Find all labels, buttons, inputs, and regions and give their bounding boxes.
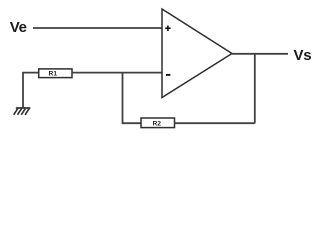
wire output branch vertical xyxy=(254,54,256,123)
wire R2 to output branch xyxy=(175,122,255,124)
svg-text:R1: R1 xyxy=(49,71,58,78)
pin + (non-inverting) xyxy=(165,26,170,32)
resistor R2 xyxy=(141,118,175,128)
wire R1 to inverting input xyxy=(72,72,162,74)
svg-text:Vs: Vs xyxy=(294,47,312,64)
wire ground to R1 xyxy=(23,73,39,108)
ground xyxy=(14,108,31,115)
pin - (inverting) xyxy=(166,74,170,76)
wire output xyxy=(232,53,288,55)
svg-text:R2: R2 xyxy=(153,121,162,128)
wire junction down to R2 xyxy=(123,73,142,124)
op-amp U1 xyxy=(162,9,232,98)
svg-text:Ve: Ve xyxy=(10,19,27,36)
resistor R1 xyxy=(39,69,72,78)
wire Ve to non-inverting input xyxy=(33,27,162,29)
